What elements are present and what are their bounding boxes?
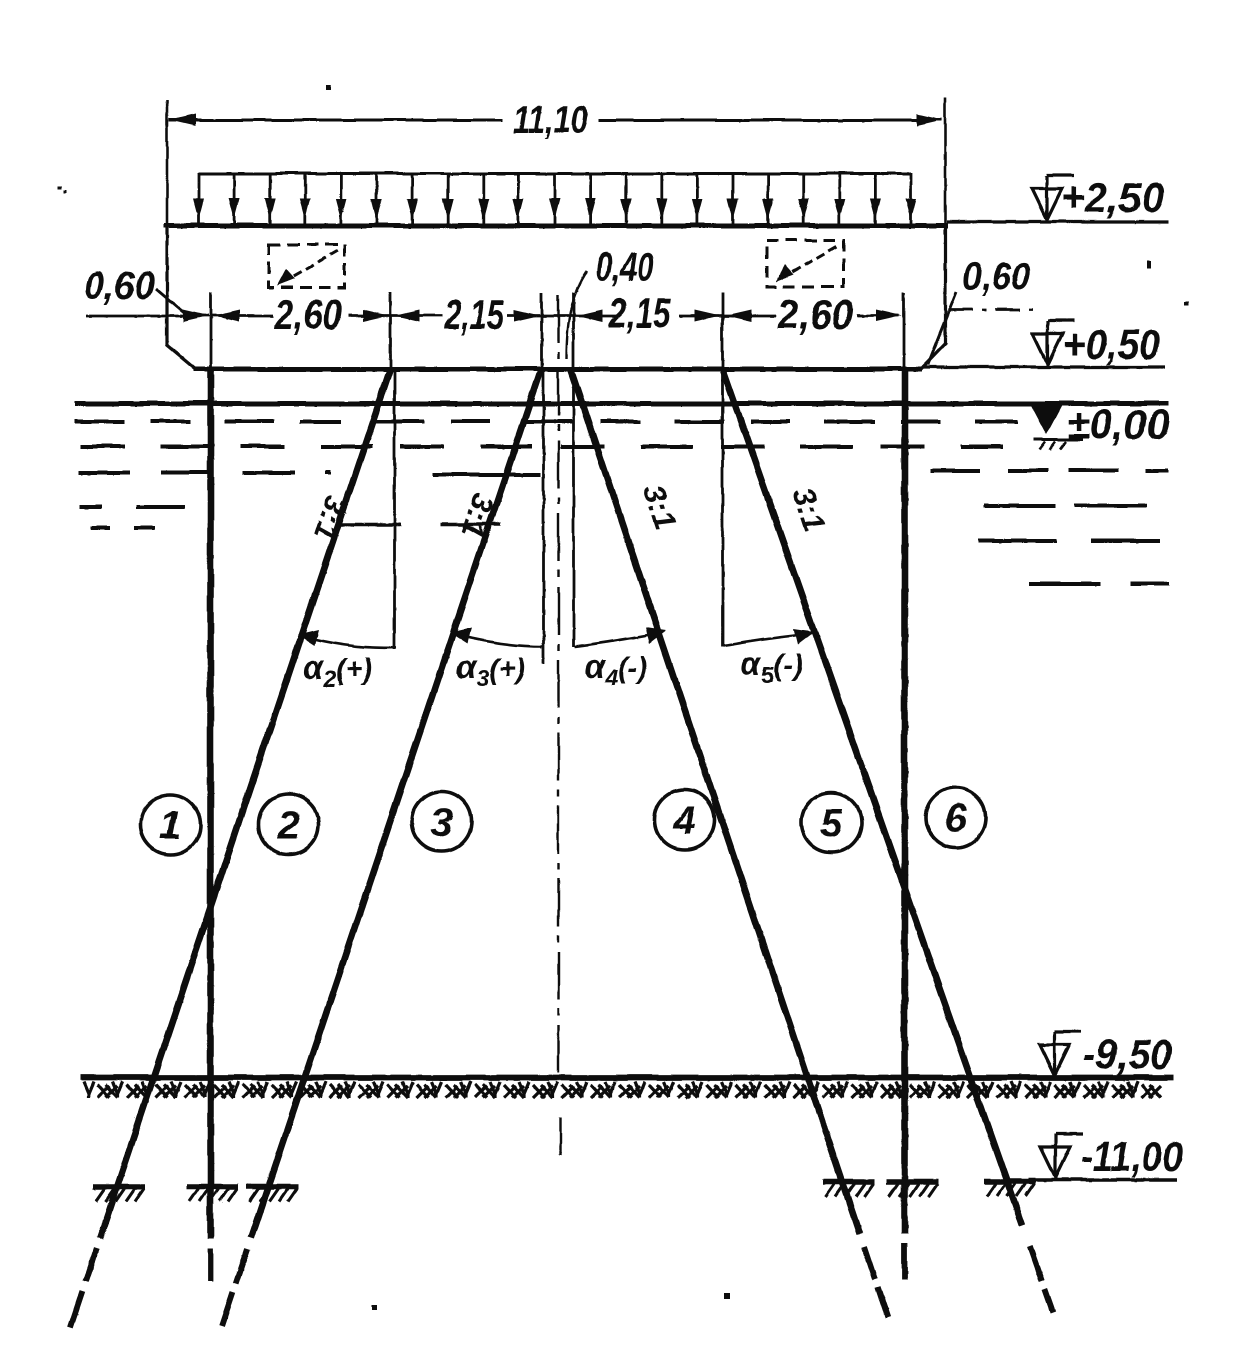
svg-text:2,15: 2,15 — [443, 290, 503, 337]
svg-text:+2,50: +2,50 — [1060, 173, 1164, 220]
svg-text:0,60: 0,60 — [84, 264, 154, 307]
svg-text:2,60: 2,60 — [273, 290, 341, 337]
soil hatching along ground line — [83, 1081, 1161, 1097]
pile 3 (raking 3:1 left) — [221, 368, 541, 1325]
pile 4 (raking 3:1 right) — [570, 368, 887, 1317]
pile number balloon 5 — [801, 792, 861, 852]
pile 2 (raking 3:1 left) — [69, 368, 390, 1327]
svg-text:2: 2 — [276, 803, 299, 847]
pile 6 tip mark — [886, 1181, 938, 1196]
pile number balloon 2 — [258, 794, 318, 854]
ground line (river bed) -9,50 — [80, 1074, 1173, 1080]
vertical reference line at pile 5 — [721, 368, 724, 646]
svg-text:4: 4 — [672, 798, 695, 842]
pile cap (grillage) outline — [163, 223, 947, 369]
svg-text:α3(+): α3(+) — [455, 648, 525, 691]
pile 5 tip mark — [983, 1181, 1035, 1196]
pile 4 tip mark — [822, 1181, 874, 1196]
distributed load q on cap top — [193, 172, 916, 223]
svg-text:0,60: 0,60 — [962, 255, 1030, 298]
level marker +0,50 — [1032, 320, 1074, 364]
pile 6 (vertical) — [901, 368, 908, 1279]
pile 1 tip mark — [186, 1186, 238, 1201]
angle arc alpha5 — [723, 628, 814, 645]
centreline dash below ground — [559, 1117, 561, 1155]
dimension row 2,60 / 2,15 / 0,40 / 2,15 / 2,60 — [85, 289, 903, 368]
level marker -11,00 — [1040, 1133, 1082, 1177]
dashed box with force arrow (right) — [766, 240, 843, 286]
level line +0,50 — [921, 365, 1165, 368]
water line WL — [74, 401, 1168, 406]
angle arc alpha3 — [450, 627, 542, 646]
pile 5 (raking 3:1 right) — [722, 368, 1052, 1312]
dimension 0,60 left edge — [84, 264, 188, 316]
angle arc alpha4 — [574, 627, 666, 646]
dimension 11,10 overall width — [167, 97, 945, 224]
svg-text:±0,00: ±0,00 — [1066, 400, 1169, 447]
level line +2,50 — [946, 219, 1168, 222]
dashed box with force arrow (left) — [268, 244, 344, 287]
vertical reference line at pile 2 — [393, 368, 396, 649]
svg-text:-9,50: -9,50 — [1082, 1030, 1172, 1077]
centreline of pier (dash-dot) — [557, 294, 559, 1080]
svg-text:0,40: 0,40 — [595, 245, 653, 289]
angle arc alpha2 — [297, 629, 396, 647]
svg-text:α2(+): α2(+) — [302, 648, 372, 691]
pile number balloon 3 — [411, 791, 471, 851]
svg-text:1: 1 — [159, 803, 181, 847]
svg-text:-11,00: -11,00 — [1080, 1132, 1182, 1179]
pile 1 (vertical) — [207, 368, 214, 1281]
pile number balloon 1 — [140, 794, 200, 854]
svg-text:6: 6 — [944, 796, 967, 840]
svg-text:2,15: 2,15 — [607, 289, 670, 336]
pile number balloon 4 — [654, 789, 714, 849]
svg-text:2,60: 2,60 — [776, 290, 853, 337]
vertical reference line at pile 4 — [572, 368, 575, 646]
dimension 0,60 right edge — [927, 255, 1032, 364]
pile number balloon 6 — [925, 787, 985, 847]
level marker +2,50 — [1031, 175, 1073, 219]
svg-text:11,10: 11,10 — [512, 98, 587, 141]
pile 3 tip mark — [246, 1186, 298, 1201]
level marker -9,50 — [1039, 1031, 1081, 1075]
dimension 0,40 centre pile spacing — [566, 245, 653, 358]
pile 2 tip mark — [92, 1186, 144, 1201]
level marker ±0,00 (filled) — [1030, 404, 1082, 449]
svg-text:5: 5 — [820, 801, 843, 845]
vertical reference line at pile 3 — [542, 368, 545, 663]
bearing stratum line -11,00 — [1028, 1177, 1176, 1181]
water surface dashes — [74, 421, 1168, 583]
svg-text:3: 3 — [430, 800, 452, 844]
svg-text:+0,50: +0,50 — [1062, 320, 1160, 367]
